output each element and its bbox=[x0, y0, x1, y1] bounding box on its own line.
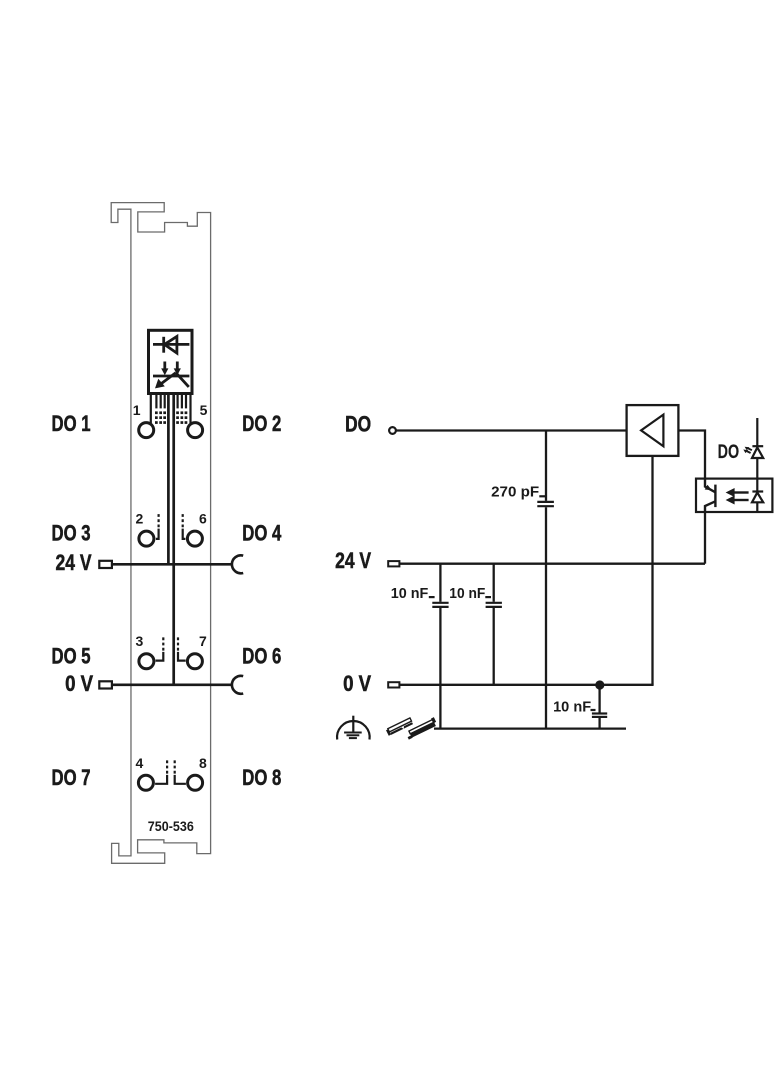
24V field terminal (module left) bbox=[99, 561, 112, 568]
LED symbol (bottom of indicator box) bbox=[153, 362, 189, 387]
terminal circle 7 bbox=[187, 654, 202, 669]
light arrows bbox=[733, 493, 749, 501]
svg-text:7: 7 bbox=[199, 633, 207, 649]
svg-text:24 V: 24 V bbox=[56, 550, 92, 575]
svg-text:24 V: 24 V bbox=[335, 548, 371, 573]
junction node bbox=[595, 680, 604, 689]
svg-text:6: 6 bbox=[199, 511, 207, 527]
24V rail wire bbox=[400, 563, 706, 565]
diode D (status LED top, pointing left) bbox=[153, 336, 189, 353]
0V terminal square bbox=[388, 682, 399, 687]
svg-text:DO: DO bbox=[345, 411, 371, 436]
wire driver output to optocoupler bbox=[678, 431, 705, 478]
internal bus stem (double wire) bbox=[168, 395, 173, 685]
contact hook terminal 2 bbox=[156, 512, 159, 539]
opto LED (inside box) bbox=[752, 479, 763, 512]
contact hook terminal 4 bbox=[155, 758, 167, 784]
svg-text:DO 5: DO 5 bbox=[52, 643, 91, 668]
svg-text:4: 4 bbox=[136, 755, 144, 771]
module 750-536 body outline bbox=[111, 203, 210, 864]
DIN rail symbol (3D) bbox=[405, 717, 438, 739]
svg-text:10 nF: 10 nF bbox=[449, 586, 485, 602]
capacitor C1 10nF branch bbox=[439, 564, 441, 602]
svg-text:750-536: 750-536 bbox=[148, 818, 194, 834]
LED DO (diode with light arrows) bbox=[752, 446, 763, 458]
driver triangle bbox=[641, 415, 663, 447]
terminal circle 6 bbox=[187, 531, 202, 546]
contact hook terminal 3 bbox=[156, 635, 164, 660]
terminal circle 5 bbox=[188, 423, 203, 438]
terminal circle 3 bbox=[139, 654, 154, 669]
contact hook terminal 7 bbox=[178, 635, 186, 660]
LED indicator box bbox=[149, 330, 193, 393]
terminal circle 2 bbox=[139, 531, 154, 546]
svg-text:DO 2: DO 2 bbox=[242, 411, 281, 436]
0V power jumper contact bbox=[232, 676, 243, 694]
24V internal rail wire bbox=[112, 563, 233, 566]
wire ribbon dots bbox=[155, 411, 187, 424]
24V terminal square bbox=[388, 561, 399, 566]
LED light ticks bbox=[746, 448, 752, 453]
terminal circle 1 bbox=[139, 423, 154, 438]
optocoupler box bbox=[696, 479, 772, 512]
driver U1 box bbox=[627, 405, 679, 456]
node DO terminal bbox=[389, 427, 396, 434]
svg-text:DO 4: DO 4 bbox=[242, 521, 281, 546]
contact hook terminal 6 bbox=[183, 512, 186, 539]
terminal circle 4 bbox=[138, 775, 153, 790]
0V internal rail wire bbox=[112, 683, 233, 686]
LED symbol arrowheads bbox=[155, 368, 181, 388]
status LED chain above optocoupler bbox=[756, 418, 758, 447]
earth rail wire (bottom) bbox=[434, 727, 626, 729]
wire 270pF branch bbox=[545, 431, 547, 501]
svg-text:DO 3: DO 3 bbox=[52, 521, 91, 546]
svg-text:10 nF: 10 nF bbox=[553, 700, 591, 716]
wire opto emitter down to 24V rail bbox=[704, 512, 706, 564]
svg-text:DO: DO bbox=[718, 442, 740, 463]
svg-text:5: 5 bbox=[200, 402, 208, 418]
svg-text:DO 1: DO 1 bbox=[52, 411, 91, 436]
svg-text:DO 7: DO 7 bbox=[52, 765, 91, 790]
0V rail wire bbox=[400, 684, 654, 686]
svg-text:1: 1 bbox=[133, 402, 141, 418]
svg-text:DO 8: DO 8 bbox=[242, 765, 281, 790]
capacitor C2 10nF branch bbox=[493, 564, 495, 602]
24V power jumper contact bbox=[232, 555, 243, 573]
phototransistor bbox=[705, 479, 715, 513]
svg-text:10 nF: 10 nF bbox=[391, 586, 429, 602]
svg-text:2: 2 bbox=[136, 511, 144, 527]
wire driver bottom to 0V rail bbox=[651, 456, 653, 685]
svg-text:0 V: 0 V bbox=[343, 671, 371, 696]
contact hook terminal 8 bbox=[175, 758, 186, 784]
wire DO to driver bbox=[396, 429, 626, 431]
svg-text:DO 6: DO 6 bbox=[242, 643, 281, 668]
svg-text:8: 8 bbox=[199, 755, 207, 771]
terminal circle 8 bbox=[188, 775, 203, 790]
svg-text:270 pF: 270 pF bbox=[491, 484, 539, 500]
wire ribbon below LED box bbox=[151, 395, 191, 423]
capacitor C3 10nF (bottom) bbox=[598, 685, 600, 713]
capacitor 270 pF bbox=[537, 496, 554, 506]
0V field terminal (module left) bbox=[99, 681, 112, 688]
svg-text:3: 3 bbox=[136, 633, 144, 649]
svg-text:0 V: 0 V bbox=[65, 671, 93, 696]
ground symbol bbox=[337, 716, 370, 740]
